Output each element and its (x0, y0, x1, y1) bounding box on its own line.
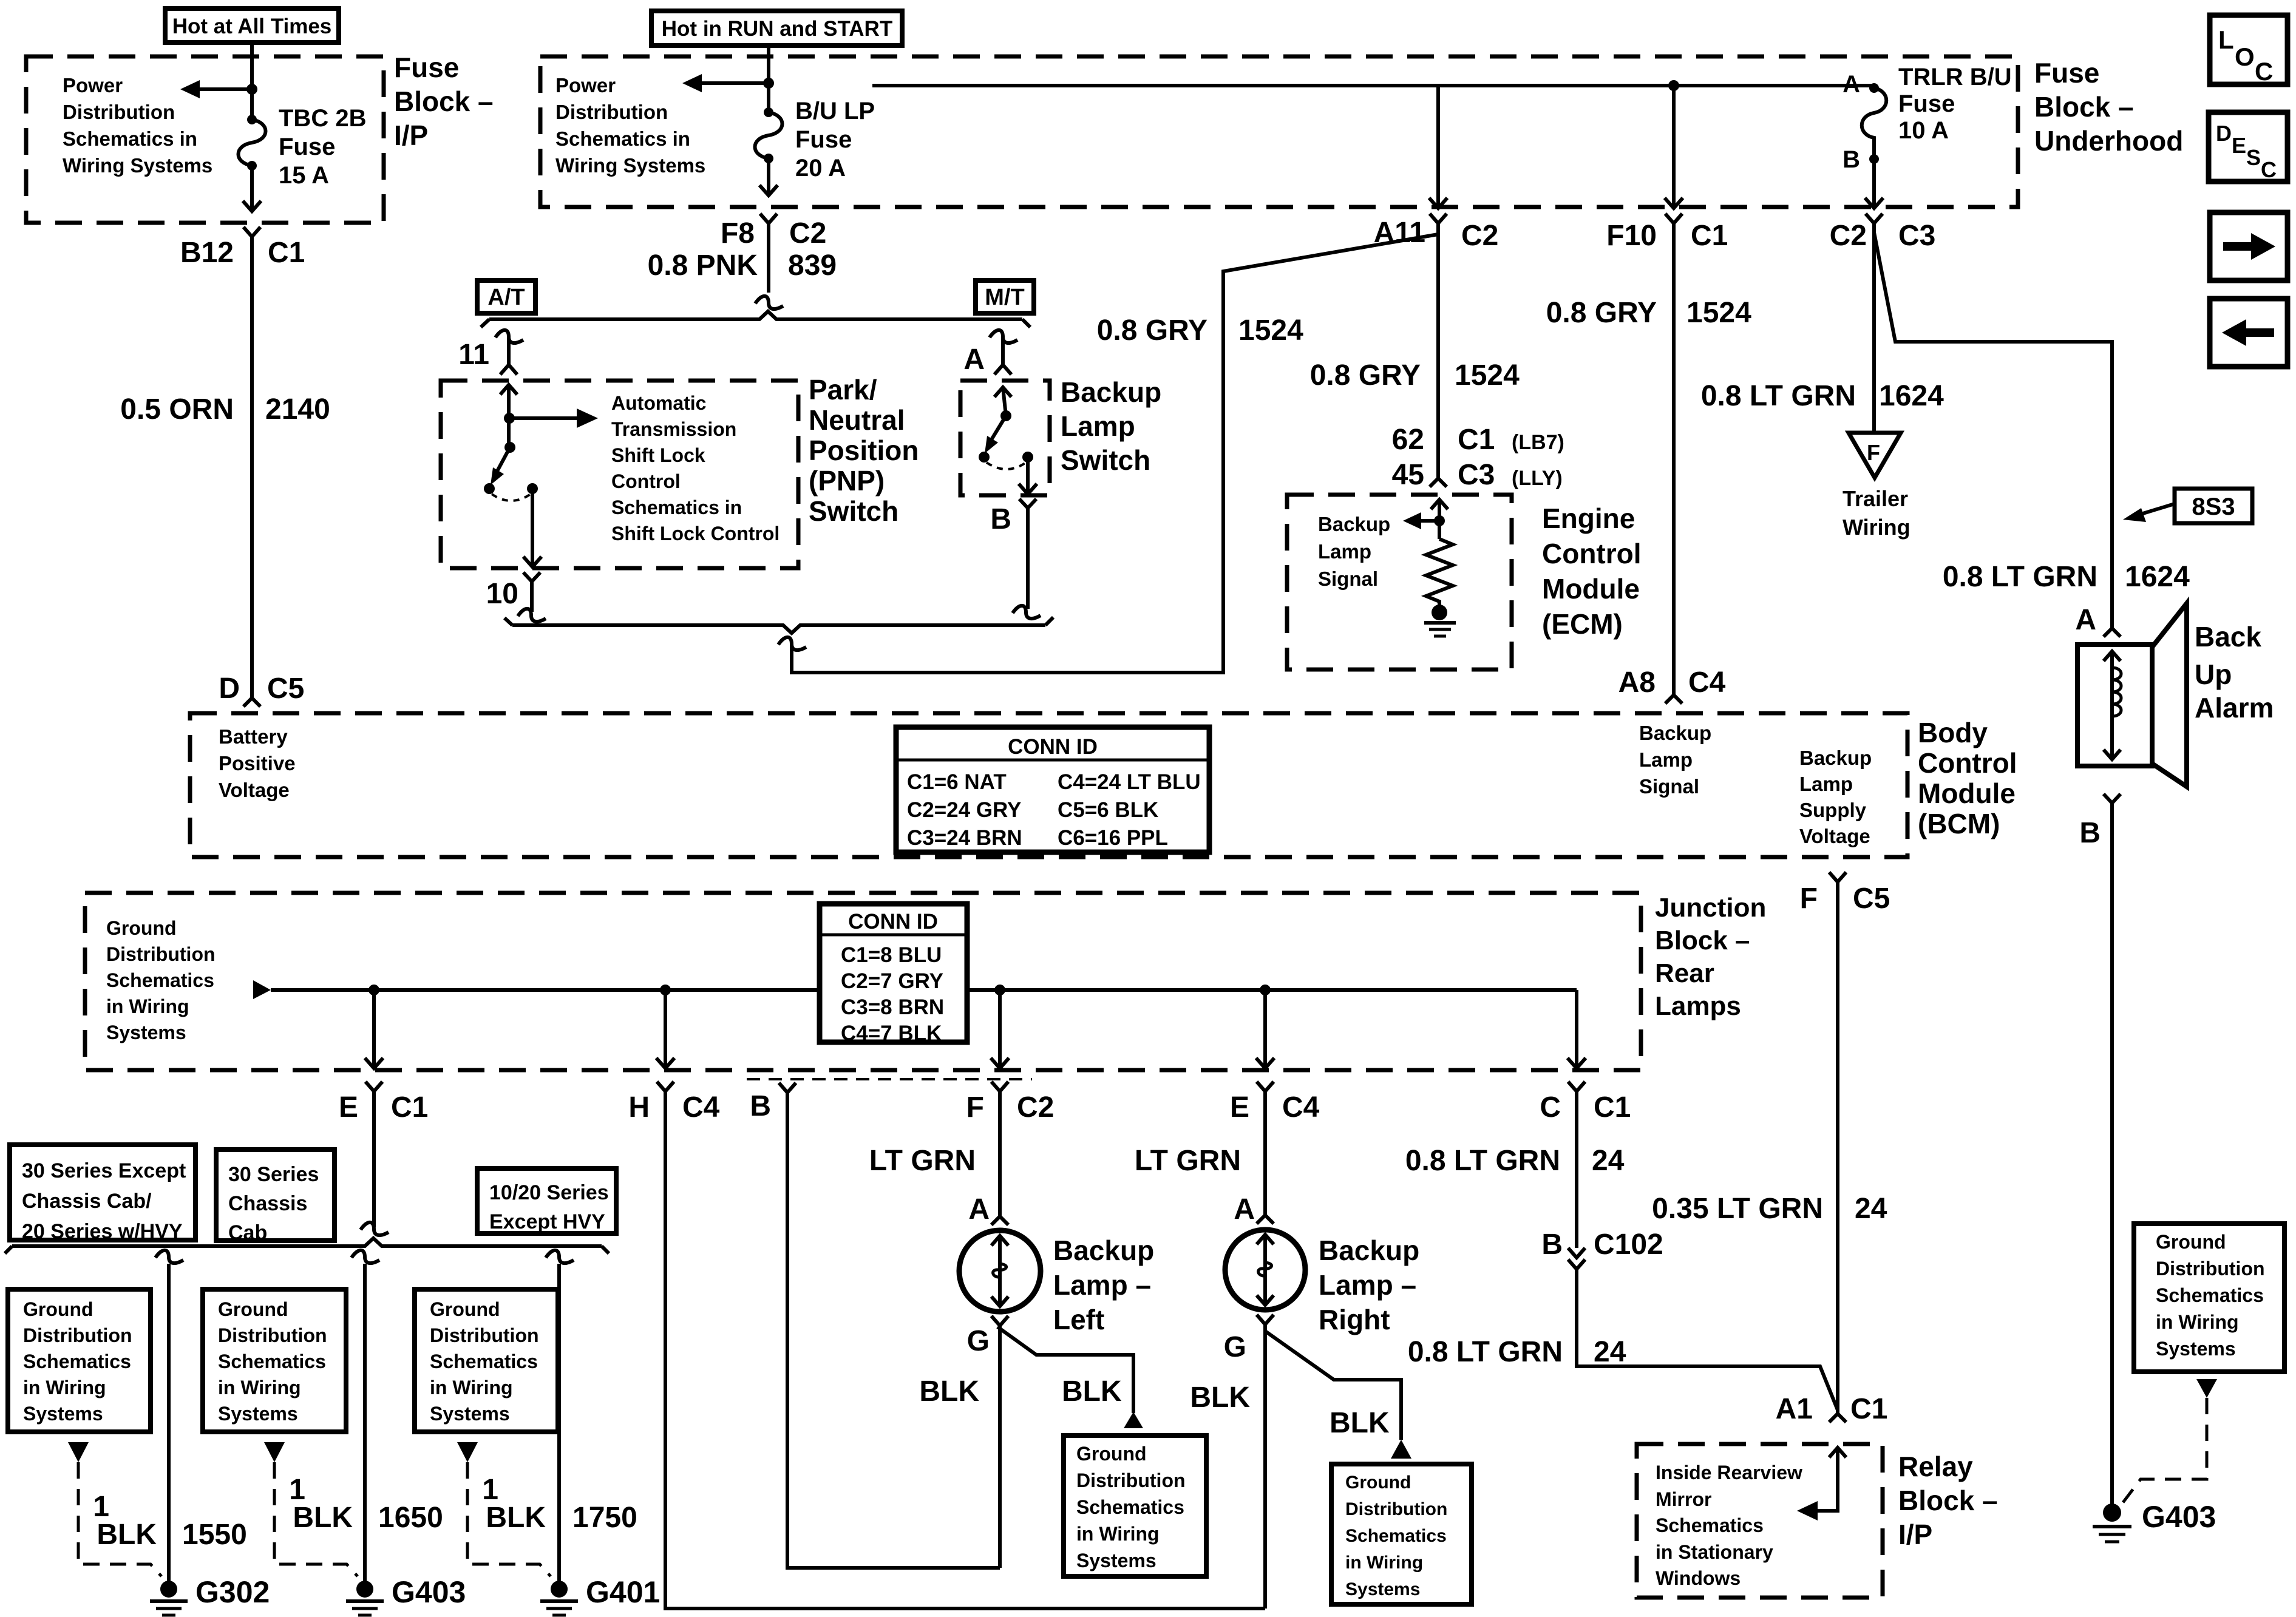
splice tilde into A/T-M/T rail (755, 296, 783, 309)
wire C C1 down to relay block (1575, 1091, 1578, 1248)
LOC nav box (2210, 15, 2288, 86)
title Fuse Block - I/P (394, 52, 494, 151)
svg-text:Schematics in: Schematics in (611, 497, 742, 518)
switch pivot dot (1000, 410, 1011, 421)
junction block dashed box (85, 893, 1641, 1070)
svg-text:Left: Left (1053, 1304, 1104, 1335)
title Backup Lamp - Left (1053, 1235, 1154, 1335)
title Backup Lamp Switch (1061, 376, 1161, 476)
wire to node (1438, 500, 1441, 539)
wire left lamp feed LT GRN (998, 1091, 1002, 1216)
svg-text:Ground: Ground (106, 917, 177, 939)
svg-text:D: D (2216, 121, 2232, 146)
svg-text:0.8 GRY: 0.8 GRY (1546, 297, 1657, 329)
svg-text:Fuse: Fuse (394, 52, 459, 83)
svg-text:C: C (2255, 57, 2273, 86)
wire down from right contact (531, 489, 534, 566)
text Power Distribution Schematics in Wiring Systems (underhood) (555, 74, 705, 177)
ECM dashed box (1287, 495, 1512, 670)
wire A11 to ECM (1436, 223, 1440, 478)
wire from merge down and right to A11 riser (1436, 223, 1440, 234)
wire branch to alarm (1874, 232, 2112, 628)
tilde below bump (778, 637, 806, 650)
svg-text:0.8 LT GRN: 0.8 LT GRN (1405, 1145, 1560, 1177)
svg-text:Engine: Engine (1542, 503, 1635, 534)
box 30 Series Chassis Cab (216, 1150, 335, 1244)
ground G403 (346, 1575, 466, 1615)
svg-text:Mirror: Mirror (1656, 1488, 1711, 1510)
svg-text:C2: C2 (1461, 220, 1498, 252)
svg-text:Schematics: Schematics (106, 969, 214, 991)
connector pin 10 fork (523, 572, 540, 581)
svg-text:Module: Module (1542, 573, 1640, 605)
ground symbol (1424, 623, 1456, 636)
svg-text:C1=6 NAT: C1=6 NAT (907, 770, 1007, 794)
text Backup Lamp Signal (BCM) (1639, 722, 1711, 798)
contact dot right (1022, 452, 1033, 463)
ground dist box 4 (1064, 1436, 1206, 1576)
fuse label TBC 2B Fuse 15 A (279, 105, 366, 189)
contact dot left (979, 452, 990, 463)
svg-text:0.5 ORN: 0.5 ORN (120, 393, 234, 425)
connector pin A fork (M/T) (994, 365, 1011, 375)
ground G403 (alarm) (2093, 1500, 2216, 1542)
wire inside relay with left arrow (1797, 1448, 1838, 1520)
svg-text:Right: Right (1319, 1304, 1390, 1335)
connector A1 C1 fork (arms down) (1829, 1414, 1846, 1422)
svg-text:A: A (1843, 71, 1860, 98)
title Fuse Block - Underhood (2034, 57, 2183, 157)
connector A fork into alarm (arms down) (2104, 628, 2121, 637)
svg-text:D: D (219, 673, 240, 705)
svg-text:Back: Back (2195, 621, 2261, 653)
PNP switch A/T dashed box (shift lock) (441, 381, 798, 568)
svg-text:C5=6 BLK: C5=6 BLK (1058, 798, 1158, 822)
svg-text:M/T: M/T (985, 285, 1024, 310)
svg-text:Schematics: Schematics (218, 1351, 326, 1372)
connector F C2 fork below junction (991, 1082, 1008, 1091)
svg-text:Module: Module (1918, 778, 2016, 809)
svg-text:0.8 GRY: 0.8 GRY (1310, 359, 1421, 392)
exit arrow chevron down A11 (1429, 198, 1447, 208)
svg-text:2140: 2140 (265, 393, 330, 425)
text Backup Lamp Signal (ECM) (1318, 513, 1390, 590)
svg-text:C2: C2 (1830, 220, 1867, 252)
svg-text:24: 24 (1592, 1145, 1625, 1177)
svg-text:30 Series Except: 30 Series Except (22, 1159, 186, 1182)
text Backup Lamp Supply Voltage (1799, 747, 1872, 847)
svg-text:45: 45 (1392, 459, 1424, 491)
svg-text:10 A: 10 A (1898, 117, 1949, 144)
svg-text:Fuse: Fuse (795, 126, 852, 153)
drop to F C2 (998, 990, 1002, 1068)
svg-text:Distribution: Distribution (2156, 1258, 2265, 1280)
svg-text:in Wiring: in Wiring (1345, 1553, 1423, 1573)
fuse block underhood dashed box (540, 56, 2018, 207)
svg-text:Windows: Windows (1656, 1567, 1741, 1589)
svg-text:0.8 PNK: 0.8 PNK (648, 249, 758, 282)
svg-text:839: 839 (788, 249, 837, 282)
svg-text:Supply: Supply (1799, 799, 1867, 821)
svg-text:(LB7): (LB7) (1512, 431, 1564, 454)
svg-text:in Wiring: in Wiring (218, 1377, 301, 1398)
svg-text:8S3: 8S3 (2192, 493, 2235, 520)
wire fuse output down (250, 166, 254, 210)
svg-text:Cab: Cab (228, 1221, 267, 1244)
wire right lamp G down to bottom rail (1263, 1324, 1267, 1609)
label 1 BLK 1750 (482, 1474, 637, 1534)
svg-text:C4: C4 (1282, 1091, 1320, 1124)
svg-text:1524: 1524 (1238, 314, 1303, 347)
svg-text:C4: C4 (1688, 666, 1726, 699)
svg-text:Block –: Block – (394, 86, 494, 117)
connector G fork right lamp (1257, 1315, 1274, 1324)
svg-text:24: 24 (1594, 1336, 1626, 1368)
svg-text:Ground: Ground (218, 1298, 288, 1320)
connector B12 C1 fork (243, 227, 260, 237)
A/T branch tilde (495, 330, 523, 343)
label Trailer Wiring (1843, 486, 1911, 540)
BCM dashed box (190, 713, 1907, 857)
svg-text:C4=24 LT BLU: C4=24 LT BLU (1058, 770, 1201, 794)
svg-text:Chassis Cab/: Chassis Cab/ (22, 1190, 152, 1213)
svg-text:Schematics: Schematics (1345, 1526, 1447, 1546)
svg-text:C1: C1 (268, 237, 305, 269)
connector A fork left lamp (991, 1216, 1008, 1225)
connector F8 C2 fork (760, 214, 777, 223)
label box "Hot at All Times" (165, 8, 339, 42)
svg-text:Wiring Systems: Wiring Systems (555, 154, 705, 177)
text Power Distribution Schematics in Wiring Systems (I/P) (63, 74, 212, 177)
ground dist box 1 (8, 1289, 151, 1432)
triangle lead right box (2196, 1379, 2217, 1398)
svg-text:Power: Power (555, 74, 616, 97)
svg-text:0.8 GRY: 0.8 GRY (1097, 314, 1207, 347)
arrow to power distribution (left) (682, 74, 769, 92)
svg-text:30 Series: 30 Series (228, 1163, 319, 1186)
svg-text:1524: 1524 (1455, 359, 1520, 392)
drop to C C1 (rail corner) (1575, 990, 1578, 1068)
exit arrow chevron down TRLR (1865, 198, 1883, 208)
triangle lead box2 (264, 1442, 285, 1462)
svg-text:Schematics in: Schematics in (555, 127, 690, 150)
connector A8 C4 fork (arms down) (1665, 695, 1682, 703)
box 30 Series Except Chassis Cab/20 Series w/HVY (10, 1145, 195, 1243)
arrow to power distribution (left) (180, 80, 252, 98)
label 1 BLK 1550 (93, 1491, 246, 1551)
svg-text:E: E (1230, 1091, 1249, 1124)
drop to H C4 (664, 990, 667, 1068)
text Automatic Transmission Shift Lock Control (611, 392, 779, 544)
svg-text:TRLR B/U: TRLR B/U (1898, 64, 2012, 90)
svg-text:C102: C102 (1594, 1229, 1663, 1261)
svg-text:Hot in RUN and START: Hot in RUN and START (662, 17, 892, 41)
fuse label TRLR B/U Fuse 10 A (1898, 64, 2012, 144)
svg-text:Distribution: Distribution (1076, 1470, 1186, 1491)
svg-text:F: F (1867, 440, 1880, 465)
svg-text:Systems: Systems (23, 1403, 103, 1425)
A/T switch entry arrow chevron up (500, 385, 517, 395)
wire left lamp G down (998, 1326, 1002, 1568)
wire TRLR fuse down (1872, 159, 1876, 208)
svg-text:Ground: Ground (1076, 1443, 1147, 1465)
title Park/Neutral Position (PNP) Switch (809, 374, 919, 527)
svg-text:Schematics: Schematics (1076, 1496, 1184, 1518)
svg-text:F10: F10 (1606, 220, 1657, 252)
svg-text:in Wiring: in Wiring (1076, 1523, 1160, 1545)
dashed throw arc (987, 463, 1026, 469)
connector E C4 fork below junction (1257, 1082, 1274, 1091)
wire below C102 (1577, 1269, 1838, 1410)
connector B C102 double chevron (1541, 1229, 1663, 1269)
svg-text:Distribution: Distribution (218, 1324, 327, 1346)
svg-text:Fuse: Fuse (1898, 90, 1955, 117)
svg-text:Control: Control (1542, 538, 1642, 569)
ground dist box right (alarm ground) (2134, 1224, 2284, 1372)
svg-text:B: B (2079, 817, 2101, 849)
connector B fork below alarm (2104, 794, 2121, 803)
relay entry arrow chevron up (1829, 1448, 1846, 1457)
svg-text:in Wiring: in Wiring (2156, 1311, 2239, 1333)
left arrow nav box (2210, 299, 2288, 367)
svg-text:0.35 LT GRN: 0.35 LT GRN (1652, 1193, 1823, 1225)
svg-text:Distribution: Distribution (63, 101, 175, 123)
svg-text:Systems: Systems (1076, 1550, 1156, 1571)
svg-text:Block –: Block – (2034, 91, 2134, 123)
svg-text:Voltage: Voltage (219, 779, 290, 801)
svg-text:LT GRN: LT GRN (869, 1145, 976, 1177)
svg-text:C2=7 GRY: C2=7 GRY (841, 969, 943, 993)
label 1 BLK 1650 (289, 1474, 443, 1534)
svg-text:Ground: Ground (23, 1298, 93, 1320)
wire below 10 (530, 581, 534, 612)
svg-text:Except HVY: Except HVY (489, 1210, 605, 1233)
svg-text:(ECM): (ECM) (1542, 608, 1623, 640)
svg-text:O: O (2235, 42, 2255, 71)
svg-text:1524: 1524 (1686, 297, 1751, 329)
svg-text:C2: C2 (1017, 1091, 1054, 1124)
svg-text:A: A (968, 1193, 990, 1225)
svg-text:Relay: Relay (1898, 1451, 1973, 1482)
svg-text:Up: Up (2195, 659, 2232, 690)
arrow to Backup Lamp Signal text (1403, 512, 1439, 529)
title Back Up Alarm (2195, 621, 2274, 724)
svg-text:Schematics: Schematics (430, 1351, 538, 1372)
svg-text:H: H (628, 1091, 650, 1124)
node dot H C4 (660, 985, 671, 995)
svg-text:1624: 1624 (2125, 561, 2190, 593)
tilde into lower rail right end (1013, 606, 1041, 619)
svg-text:Junction: Junction (1655, 893, 1766, 923)
svg-text:Positive: Positive (219, 752, 296, 775)
M/T switch entry arrow chevron up (994, 387, 1011, 397)
A/T tag box (477, 280, 535, 313)
svg-text:Ground: Ground (430, 1298, 500, 1320)
text Ground Distribution Schematics in Wiring Systems (junction) (106, 917, 216, 1043)
svg-text:G302: G302 (195, 1575, 270, 1609)
connector B fork below junction (779, 1083, 796, 1093)
text Inside Rearview Mirror Schematics in Stationary Windows (1656, 1462, 1802, 1589)
ground dist box 3 (415, 1289, 558, 1432)
node dot E C4 (1260, 985, 1271, 995)
wire F10 drop (1672, 86, 1676, 208)
connector A fork right lamp (1257, 1215, 1274, 1224)
connector G fork left lamp (991, 1316, 1008, 1326)
lower merge rail with bump down (512, 625, 1045, 633)
svg-text:0.8 LT GRN: 0.8 LT GRN (1943, 561, 2097, 593)
svg-text:Systems: Systems (2156, 1338, 2236, 1360)
DESC nav box (2209, 112, 2288, 182)
svg-text:A8: A8 (1618, 666, 1656, 699)
wire feed rail inside underhood box (872, 84, 1874, 87)
svg-text:C2=24 GRY: C2=24 GRY (907, 798, 1021, 822)
exit arrow chevron down (759, 185, 778, 195)
dashed throw arc (492, 494, 531, 501)
node dot F10 drop (1668, 80, 1679, 91)
svg-text:Lamp: Lamp (1639, 748, 1693, 771)
svg-text:C5: C5 (267, 673, 304, 705)
svg-text:CONN ID: CONN ID (848, 910, 938, 934)
M/T tag box (976, 280, 1034, 313)
svg-text:Backup: Backup (1639, 722, 1711, 744)
wire from Hot in RUN into fuse block (767, 46, 770, 112)
wire from Hot at All Times into fuse block (250, 42, 254, 120)
triangle into ground dist box 5 (1391, 1440, 1411, 1459)
svg-text:Distribution: Distribution (106, 943, 216, 965)
svg-text:1624: 1624 (1879, 380, 1944, 412)
label box "Hot in RUN and START" (651, 11, 902, 46)
svg-text:Switch: Switch (1061, 444, 1150, 476)
svg-text:C3=8 BRN: C3=8 BRN (841, 995, 944, 1019)
thin dashed connector face under junction block (747, 1078, 1032, 1080)
wire alarm B down to ground (2110, 803, 2114, 1508)
svg-text:A: A (2075, 604, 2096, 636)
back up alarm speaker (2077, 603, 2187, 787)
connector D C5 fork (243, 698, 260, 707)
node dot backup lamp signal (1434, 515, 1445, 526)
svg-text:BLK: BLK (1190, 1381, 1250, 1414)
connector C C1 fork below junction (1568, 1082, 1585, 1091)
svg-text:1550: 1550 (182, 1519, 247, 1551)
svg-text:Lamp –: Lamp – (1319, 1269, 1416, 1301)
fuse TRLR B/U 10A (1862, 83, 1887, 164)
svg-text:Power: Power (63, 74, 123, 97)
svg-text:C3=24 BRN: C3=24 BRN (907, 826, 1022, 850)
switch lever with arrowhead (491, 447, 510, 485)
svg-text:Rear: Rear (1655, 958, 1714, 988)
fuse B/U LP 20A (755, 107, 783, 163)
ground dist box 5 (1331, 1464, 1472, 1604)
series split brace (12, 1238, 602, 1246)
wire H C4 down to bottom rail (665, 1091, 1265, 1609)
M/T branch wire (1001, 336, 1005, 365)
svg-text:20 Series w/HVY: 20 Series w/HVY (22, 1220, 183, 1243)
svg-text:C1=8 BLU: C1=8 BLU (841, 943, 942, 967)
title Relay Block - I/P (1898, 1451, 1998, 1550)
svg-text:BLK: BLK (293, 1502, 353, 1534)
wire down from B (1026, 508, 1030, 609)
svg-text:I/P: I/P (394, 120, 428, 151)
svg-text:C: C (1540, 1091, 1561, 1124)
title Backup Lamp - Right (1319, 1235, 1419, 1335)
svg-text:A: A (1234, 1193, 1255, 1225)
connector H C4 fork below junction (657, 1082, 674, 1091)
trailer wiring triangle with F (1849, 433, 1901, 478)
node junction dot (246, 84, 257, 95)
svg-text:BLK: BLK (486, 1502, 546, 1534)
svg-text:0.8 LT GRN: 0.8 LT GRN (1701, 380, 1856, 412)
svg-text:Distribution: Distribution (430, 1324, 539, 1346)
wire F10 to BCM A8 (1672, 223, 1676, 695)
svg-text:Systems: Systems (106, 1022, 186, 1043)
ground branch wires with tildes (155, 1250, 183, 1584)
svg-text:20 A: 20 A (795, 155, 846, 181)
svg-text:Trailer: Trailer (1843, 486, 1908, 511)
CONN ID table (junction) (820, 904, 967, 1045)
svg-text:A: A (963, 344, 985, 376)
svg-text:S: S (2246, 145, 2261, 170)
fuse TBC 2B 15A (239, 115, 266, 171)
svg-text:I/P: I/P (1898, 1519, 1932, 1550)
wire down from right contact (1026, 457, 1030, 493)
svg-text:Backup: Backup (1318, 513, 1390, 535)
backup lamp right circle with filament (1225, 1230, 1305, 1310)
svg-text:B: B (1843, 146, 1860, 173)
title Engine Control Module (ECM) (1542, 503, 1642, 640)
svg-text:Control: Control (1918, 747, 2017, 779)
svg-text:A11: A11 (1374, 217, 1425, 249)
svg-text:C6=16 PPL: C6=16 PPL (1058, 826, 1168, 850)
connector E C1 fork below junction (365, 1082, 382, 1091)
wire F C5 down to relay block (1836, 882, 1839, 1414)
relay block dashed box (1637, 1444, 1883, 1598)
wire left lamp ground branch (997, 1327, 1133, 1413)
ground G401 (540, 1575, 660, 1615)
wire E C1 down to brace (372, 1091, 376, 1227)
alarm inner element: arrows and coil (2104, 651, 2121, 759)
8S3 reference box with arrow (2123, 489, 2252, 523)
svg-text:Schematics in: Schematics in (63, 127, 197, 150)
triangle lead box1 (68, 1442, 89, 1462)
svg-text:F8: F8 (721, 217, 755, 249)
switch lever with arrowhead (985, 416, 1006, 453)
node junction dot (763, 78, 774, 89)
svg-text:Systems: Systems (218, 1403, 298, 1425)
svg-text:Backup: Backup (1053, 1235, 1154, 1266)
svg-text:Schematics: Schematics (1656, 1514, 1764, 1536)
svg-text:C1: C1 (1594, 1091, 1631, 1124)
svg-text:Switch: Switch (809, 495, 898, 527)
contact dot right (527, 483, 538, 494)
svg-text:10/20 Series: 10/20 Series (489, 1181, 609, 1204)
svg-text:G: G (1224, 1331, 1246, 1363)
arrow from ground distribution text (253, 980, 271, 999)
wire fuse output down (767, 158, 770, 194)
node dot E C1 (369, 985, 379, 995)
wire 0.5 ORN 2140 down to BCM (250, 237, 254, 698)
svg-text:Ground: Ground (2156, 1231, 2226, 1253)
node dot with arrow to shift lock text (504, 413, 515, 424)
drop to E C1 (372, 990, 376, 1068)
svg-text:E: E (339, 1091, 358, 1124)
svg-text:TBC 2B: TBC 2B (279, 105, 366, 132)
connector fork into ECM (arms down) (1430, 478, 1447, 487)
junction internal feed rail (271, 988, 1577, 992)
svg-text:15 A: 15 A (279, 162, 329, 189)
wire B loop to left lamp (787, 1093, 1000, 1568)
switch pivot dot (504, 442, 515, 453)
exit arrow chevron down (1019, 484, 1037, 494)
